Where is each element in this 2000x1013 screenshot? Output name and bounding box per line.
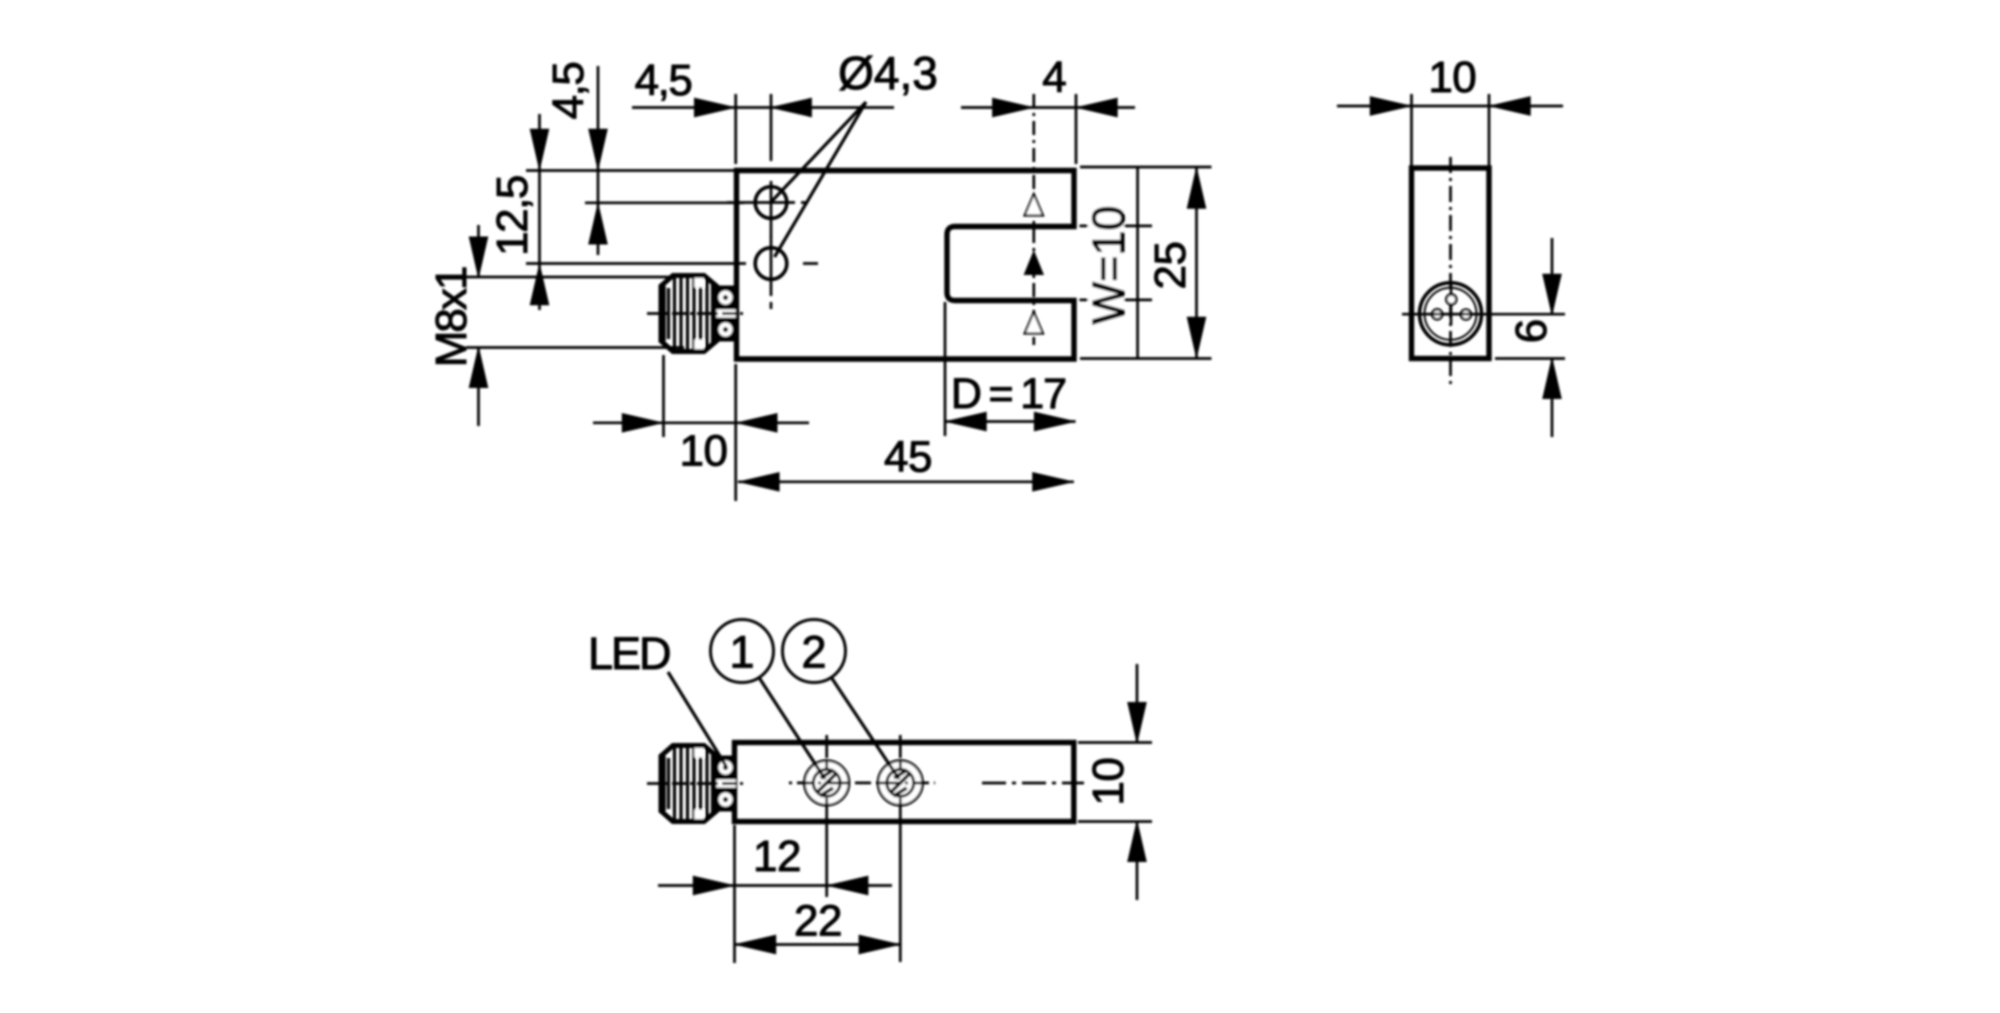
dim M8x1: dimension line and arrows bbox=[477, 225, 480, 426]
body outline with fork slot bbox=[737, 171, 1075, 360]
mounting hole top (d4.3) bbox=[755, 187, 787, 219]
dim 10 bottom: dimension line and arrows bbox=[1136, 664, 1139, 900]
svg-text:12: 12 bbox=[753, 832, 801, 881]
bottom body rectangle bbox=[735, 743, 1074, 822]
leader 2 bbox=[831, 677, 899, 779]
svg-text:10: 10 bbox=[680, 426, 728, 475]
screw hole 2 vertical extension bbox=[899, 735, 902, 962]
dim M8x1: extension lines bbox=[466, 277, 684, 348]
dash-dot centerline right part bbox=[982, 782, 1084, 785]
dim 22: dimension line and arrows bbox=[735, 943, 901, 946]
svg-text:W=10: W=10 bbox=[1083, 206, 1134, 325]
dim 45: dimension line and arrows bbox=[738, 480, 1074, 483]
circled 1 bbox=[711, 620, 774, 683]
LED leader line bbox=[668, 672, 726, 766]
dim 4,5 horizontal: dimension line and arrows bbox=[632, 106, 894, 109]
screw hole 1 vertical extension bbox=[825, 735, 828, 897]
dim 25: dimension line and arrows bbox=[1195, 167, 1198, 359]
svg-text:4,5: 4,5 bbox=[635, 56, 692, 105]
svg-text:10: 10 bbox=[1084, 758, 1133, 806]
optical axis dash-dot line bbox=[1032, 94, 1035, 345]
dim 12: extension line body left bbox=[733, 825, 736, 963]
leader lines d4.3 bbox=[772, 102, 866, 257]
dim W=10: dimension line bbox=[1136, 167, 1139, 359]
svg-text:4: 4 bbox=[1042, 53, 1066, 102]
connector face outer circle bbox=[1420, 283, 1482, 345]
dim 12,5: dimension line and arrows bbox=[538, 114, 541, 310]
dim 12,5: extension line hole bottom bbox=[526, 262, 746, 265]
screw head 1 bbox=[804, 761, 849, 806]
dim 10 connector: extension lines bbox=[664, 355, 736, 501]
leader 1 bbox=[759, 678, 825, 780]
dim 12: dimension line and arrows bbox=[658, 884, 892, 887]
dim 4: dimension line and arrows bbox=[961, 106, 1135, 109]
connector centerline bbox=[647, 312, 747, 315]
connector centerline bottom bbox=[647, 782, 747, 785]
svg-text:4,5: 4,5 bbox=[544, 63, 593, 120]
centermark hole top bbox=[727, 181, 808, 243]
M8 connector nut bottom bbox=[647, 746, 747, 822]
circled 2 bbox=[783, 620, 846, 683]
dim D=17: dimension line and arrows bbox=[945, 420, 1076, 423]
svg-text:10: 10 bbox=[1428, 53, 1476, 102]
svg-text:6: 6 bbox=[1507, 319, 1556, 343]
dim 10 side: extension lines bbox=[1412, 94, 1490, 166]
connector face inner circle bbox=[1425, 288, 1477, 340]
mounting hole bottom (d4.3) bbox=[755, 248, 787, 280]
dim 4,5 horizontal: extension lines bbox=[736, 94, 771, 164]
dim vertical 4,5: dimension line and arrows bbox=[597, 66, 600, 255]
centermark hole bottom bbox=[771, 230, 818, 309]
vertical dash-dot centerline bbox=[1449, 157, 1452, 387]
svg-text:Ø4,3: Ø4,3 bbox=[838, 47, 938, 99]
svg-text:12,5: 12,5 bbox=[488, 176, 537, 256]
dim 4: extension line right edge bbox=[1075, 94, 1078, 164]
dim 6: dimension line and arrows bbox=[1551, 238, 1554, 437]
dim 10 connector: dimension line and arrows bbox=[593, 421, 809, 424]
dim W=10: extension lines slot bbox=[1080, 226, 1153, 300]
M8 connector nut front bbox=[647, 276, 747, 352]
svg-text:D = 17: D = 17 bbox=[951, 370, 1066, 418]
screw head 2 bbox=[878, 761, 923, 806]
dim vertical 4,5: extension lines bbox=[526, 171, 744, 203]
label W=10 with white backing bbox=[1088, 205, 1124, 325]
svg-text:45: 45 bbox=[884, 433, 932, 482]
open triangle lower arm bbox=[1025, 312, 1043, 334]
dim 6: extension lines bbox=[1402, 314, 1565, 358]
filled triangle in slot bbox=[1024, 250, 1044, 275]
side body rectangle bbox=[1412, 168, 1490, 359]
dim 10 side: dimension line and arrows bbox=[1337, 105, 1563, 108]
connector pins bbox=[1446, 294, 1456, 304]
svg-text:25: 25 bbox=[1146, 242, 1195, 290]
svg-text:M8x1: M8x1 bbox=[427, 267, 476, 367]
dim 25: extension lines bbox=[1080, 167, 1212, 359]
dash-dot centerline through screws bbox=[789, 782, 935, 785]
svg-text:LED: LED bbox=[588, 628, 670, 679]
svg-text:2: 2 bbox=[801, 627, 826, 678]
open triangle upper arm bbox=[1025, 194, 1043, 216]
svg-text:1: 1 bbox=[729, 627, 754, 678]
dim 10 bottom: extension lines bbox=[1078, 743, 1152, 822]
dim D=17: extension line slot depth bbox=[944, 302, 947, 436]
svg-text:22: 22 bbox=[794, 897, 842, 946]
connector pin cross bbox=[1427, 281, 1475, 325]
